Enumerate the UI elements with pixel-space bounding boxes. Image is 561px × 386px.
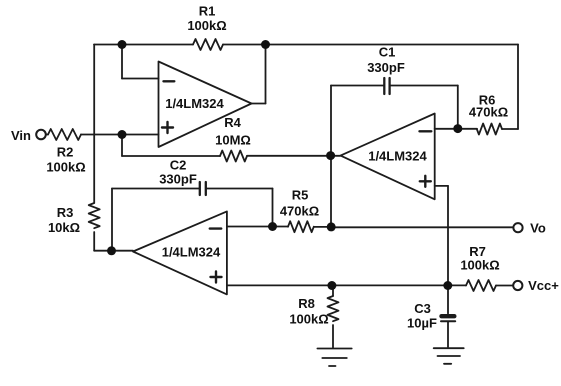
wire R4 right lead to U2 apex [247, 155, 341, 157]
wire bottom rail (U3 plus to R7) [227, 284, 466, 286]
svg-text:330pF: 330pF [159, 172, 197, 187]
terminal Vin [36, 130, 46, 140]
terminal Vcc+ [513, 281, 522, 290]
wire Vin row to U1 plus input [81, 134, 159, 136]
wire top rail left segment (R3 line to R1) [94, 44, 193, 46]
op-amp U1 minus pin symbol [164, 80, 175, 82]
wire R3 line vertical (top rail down through Vin row) [93, 45, 95, 204]
resistor R7 [466, 280, 496, 291]
op-amp U1 triangle [159, 62, 252, 148]
svg-text:470kΩ: 470kΩ [469, 105, 508, 120]
wire U3 minus stub to R5 [227, 226, 288, 228]
wire R4 branch vertical from Vin node [121, 135, 123, 157]
svg-text:C3: C3 [414, 301, 431, 316]
wire U1 minus branch vertical [121, 45, 123, 79]
resistor R2 [48, 129, 81, 140]
wire U1 output (apex to vertical) [252, 103, 266, 105]
wire R8 bottom lead [332, 325, 334, 348]
wire Vin input lead [46, 134, 48, 136]
junction node R5 / Vo row / U2 output line [327, 222, 336, 231]
svg-text:1/4LM324: 1/4LM324 [162, 245, 221, 260]
terminal Vo [513, 223, 522, 232]
svg-text:C2: C2 [170, 158, 187, 173]
wire C2 left vertical [111, 189, 113, 251]
wire C3 top lead [447, 286, 449, 314]
wire C2 right lead [206, 188, 273, 190]
wire U2 output node down to Vo row [330, 156, 332, 228]
svg-text:Vo: Vo [530, 220, 546, 235]
resistor R4 [220, 151, 247, 162]
junction node U2 minus / R6 / C1 [453, 124, 462, 133]
resistor R1 [193, 39, 223, 50]
wire R5 right lead to node [314, 226, 331, 228]
wire Vo row [331, 226, 514, 228]
svg-text:R5: R5 [292, 188, 309, 203]
junction node top rail / U1 output [261, 40, 270, 49]
junction node U2 output / R4 / C1 [326, 151, 335, 160]
svg-text:100kΩ: 100kΩ [289, 312, 328, 327]
wire U2 plus stub [435, 185, 448, 187]
svg-text:100kΩ: 100kΩ [460, 258, 499, 273]
wire U3 output row (jog to apex) [94, 250, 133, 252]
svg-text:10kΩ: 10kΩ [48, 220, 80, 235]
capacitor C1 [384, 78, 389, 94]
svg-text:Vcc+: Vcc+ [528, 278, 559, 293]
capacitor C3 (polarized) [441, 316, 455, 321]
ground (below R8) [317, 349, 351, 367]
svg-text:R4: R4 [224, 115, 241, 130]
svg-text:R8: R8 [298, 296, 315, 311]
junction node bottom rail / C3 / R7 [443, 281, 452, 290]
wire U1 minus branch horizontal [122, 78, 159, 80]
op-amp U2 triangle (points left) [341, 114, 435, 200]
resistor R5 [288, 221, 314, 232]
op-amp U2 plus pin symbol [420, 176, 431, 187]
op-amp U1 plus pin symbol [162, 122, 173, 133]
wire right edge vertical (top-right corner down to R6) [517, 45, 519, 130]
wire R4 left lead [122, 155, 220, 157]
capacitor C2 [200, 182, 206, 195]
wire C2 right vertical down to U3 minus node [272, 189, 274, 227]
wire C1 right lead [390, 85, 458, 87]
svg-text:Vin: Vin [11, 128, 31, 143]
junction node Vin row / U1 plus / R4 [118, 130, 127, 139]
resistor R6 [477, 124, 502, 135]
junction node U3 minus / C2 [268, 222, 277, 231]
svg-text:R2: R2 [57, 145, 74, 160]
wire C1 branch vertical from node [457, 86, 459, 129]
wire R6 left lead to U2 minus input [435, 128, 477, 130]
ground (below C3) [434, 348, 464, 364]
resistor R3 [89, 203, 100, 228]
wire R7 right lead to Vcc terminal [496, 285, 513, 287]
wire C2 left lead [112, 188, 200, 190]
svg-text:R1: R1 [199, 4, 216, 19]
svg-text:330pF: 330pF [367, 60, 405, 75]
wire C3 bottom lead [447, 322, 449, 347]
wire R3 bottom lead [93, 232, 95, 251]
svg-text:1/4LM324: 1/4LM324 [165, 96, 224, 111]
resistor R8 [328, 296, 339, 321]
svg-text:470kΩ: 470kΩ [280, 204, 319, 219]
wire top rail right segment (R1 to top-right corner) [223, 44, 518, 46]
wire U1 output vertical up to top rail [265, 45, 267, 104]
svg-text:10µF: 10µF [407, 316, 437, 331]
svg-text:R3: R3 [57, 205, 74, 220]
svg-text:10MΩ: 10MΩ [215, 133, 251, 148]
svg-text:100kΩ: 100kΩ [46, 160, 85, 175]
wire U2 plus vertical down to bottom rail [447, 186, 449, 286]
svg-text:C1: C1 [379, 45, 396, 60]
junction node U3 output / R3 / C2 [107, 246, 116, 255]
wire R8 top lead [332, 286, 334, 297]
wire C1 left vertical down to U2 output node [330, 86, 332, 156]
op-amp U3 triangle (points left) [133, 211, 227, 294]
junction node top rail / U1 minus [118, 40, 127, 49]
wire C1 left lead [331, 85, 384, 87]
svg-text:100kΩ: 100kΩ [187, 18, 226, 33]
wire R6 right lead [502, 128, 518, 130]
junction node bottom rail / R8 [327, 281, 336, 290]
op-amp U3 plus pin symbol [211, 272, 222, 283]
op-amp U3 minus pin symbol [210, 227, 221, 229]
op-amp U2 minus pin symbol [420, 130, 432, 132]
svg-text:1/4LM324: 1/4LM324 [368, 149, 427, 164]
